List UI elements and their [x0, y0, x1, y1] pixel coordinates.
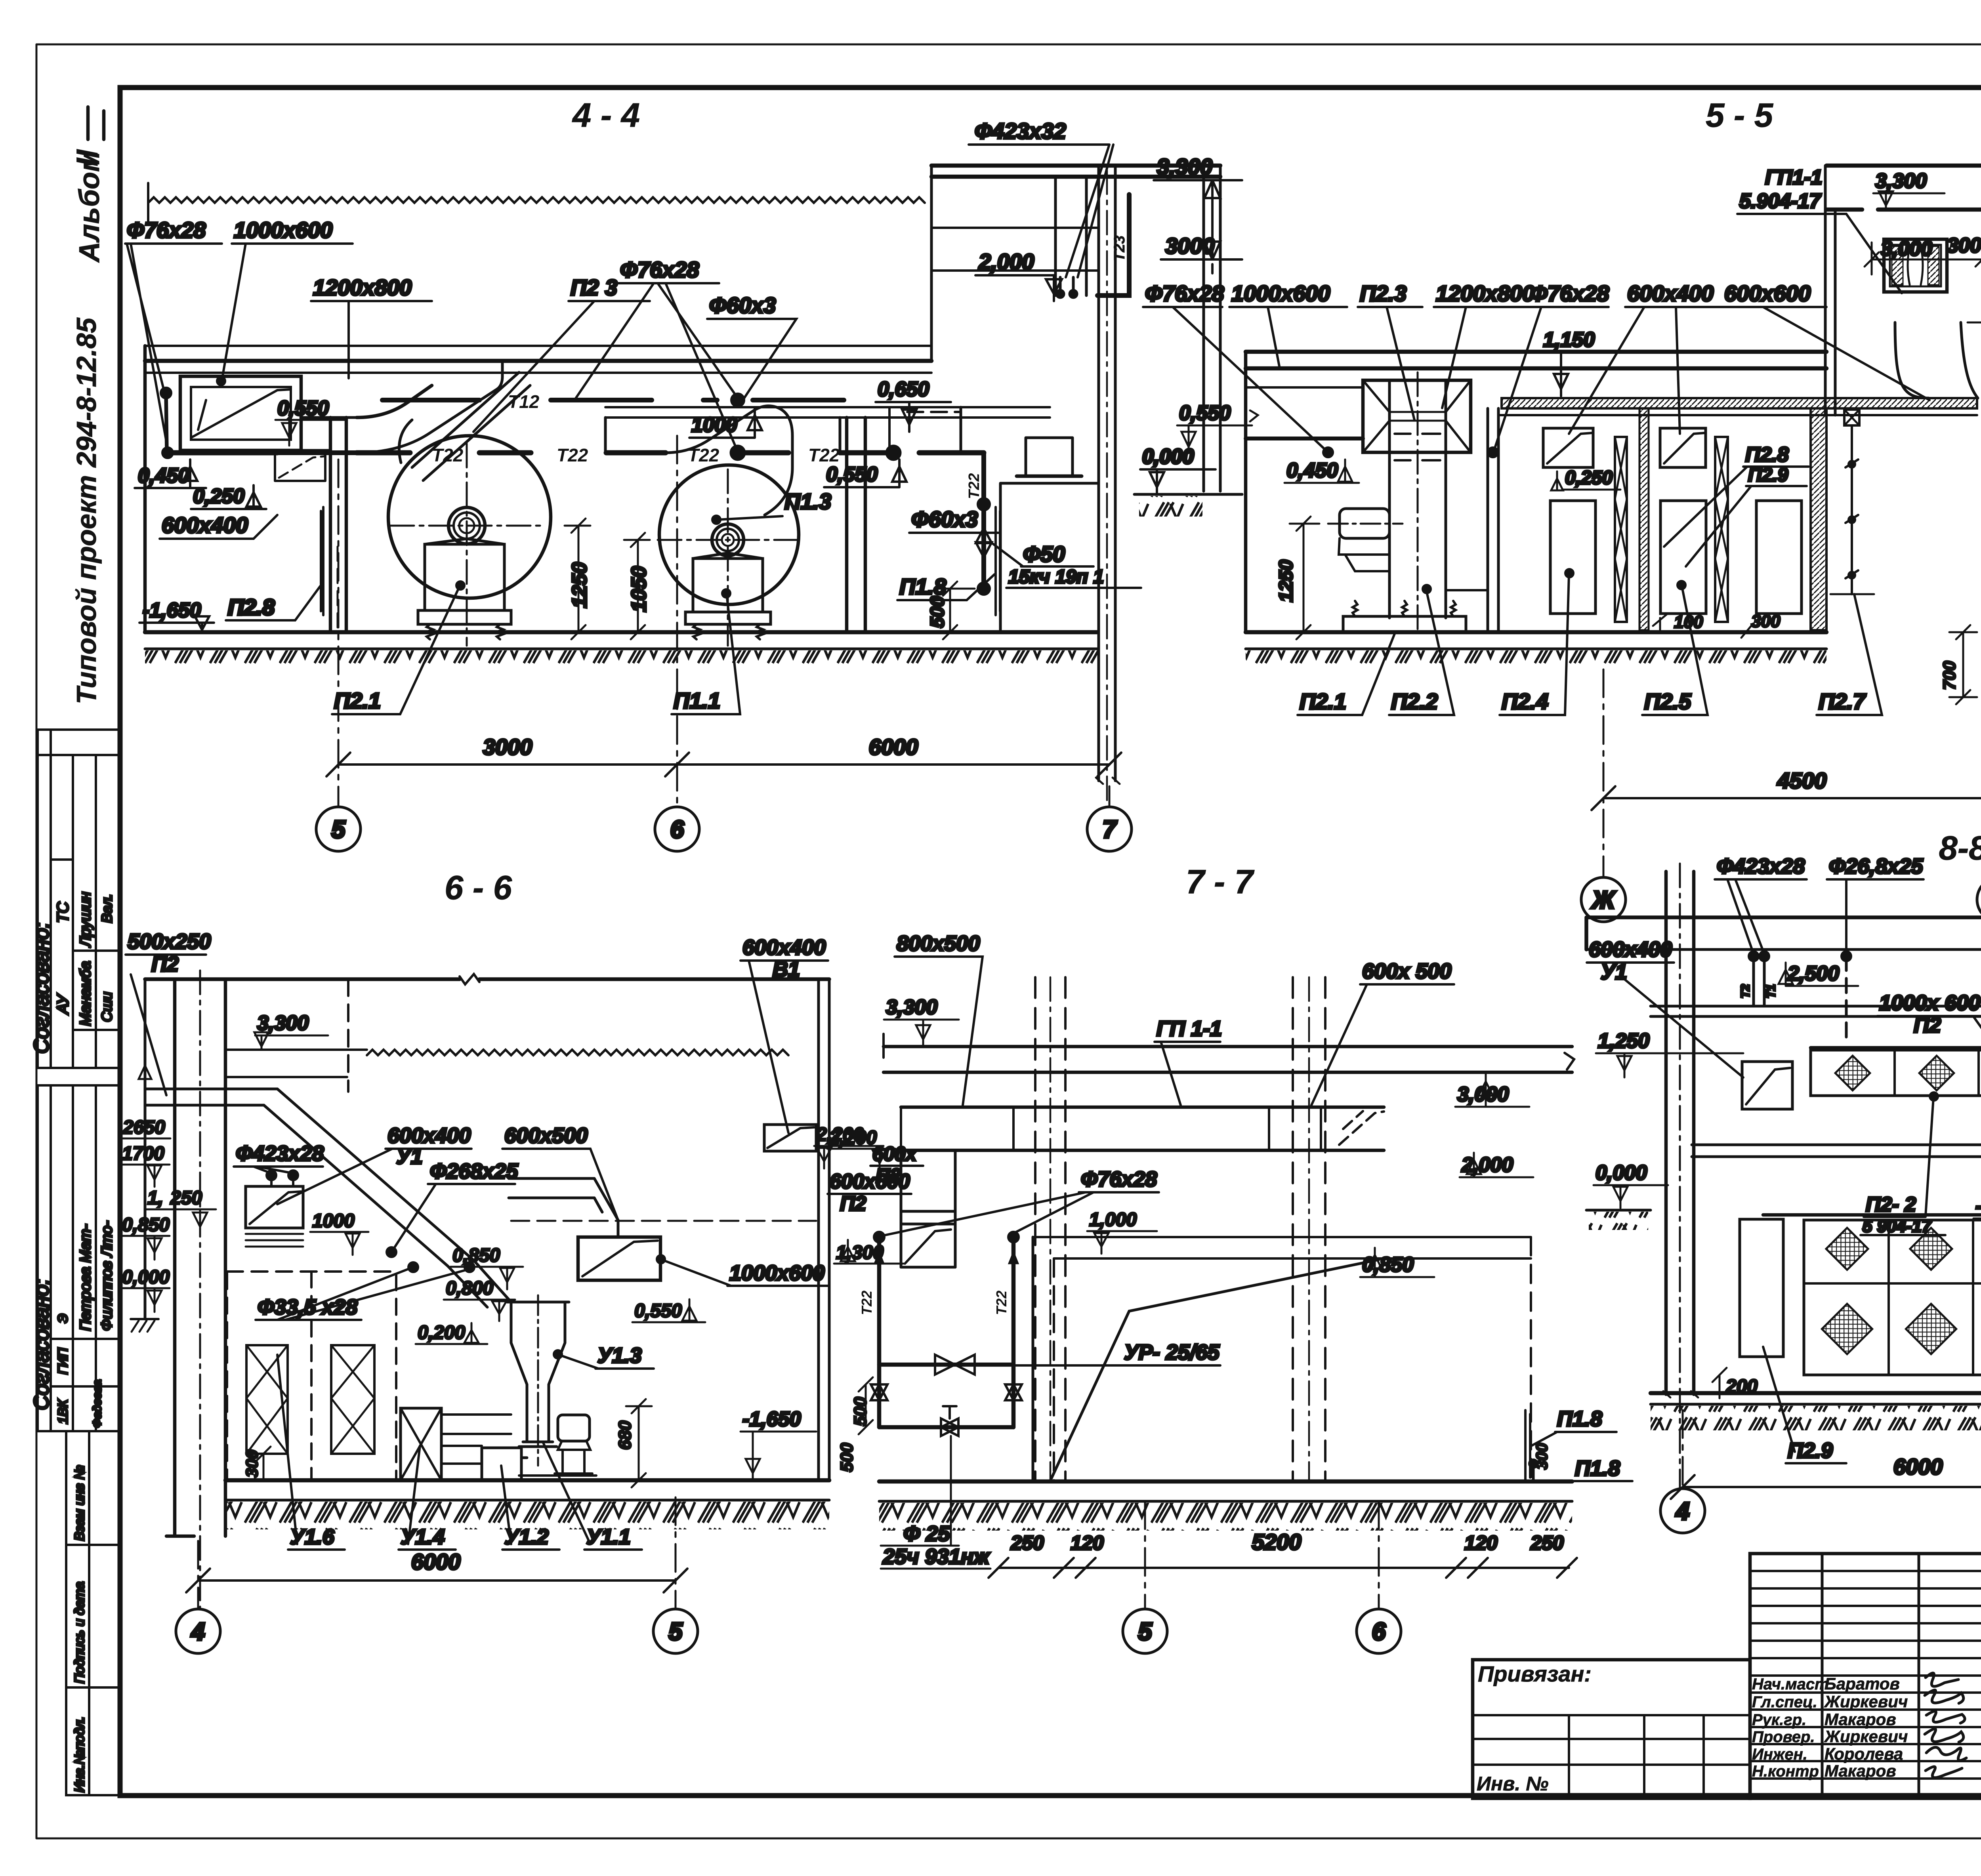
svg-text:500: 500: [927, 596, 948, 628]
6-6 label Ф33,5х28: [256, 1262, 474, 1320]
svg-text:Сши: Сши: [99, 992, 115, 1022]
svg-text:Жиркевич: Жиркевич: [1824, 1727, 1908, 1746]
svg-text:Т12: Т12: [508, 391, 540, 412]
4-4 wall 3 double: [847, 418, 865, 632]
8-8 ceiling of room: [1651, 1006, 1981, 1016]
svg-text:1000х600: 1000х600: [1231, 281, 1330, 306]
svg-text:Ф76х28: Ф76х28: [1145, 281, 1224, 306]
6-6 dim 2200: [827, 1127, 895, 1171]
svg-text:0,650: 0,650: [878, 378, 929, 401]
4-4 label П2.1: [332, 581, 464, 714]
4-4 dim 0550 louvre: [275, 397, 347, 446]
svg-text:П2- 2: П2- 2: [1866, 1193, 1916, 1216]
6-6 levels at left: [120, 1066, 216, 1312]
svg-text:Ф268х25: Ф268х25: [430, 1159, 518, 1183]
svg-text:П2.2: П2.2: [1391, 689, 1438, 714]
svg-text:2,000: 2,000: [978, 249, 1034, 274]
svg-text:Ф60х3: Ф60х3: [709, 293, 776, 318]
4-4 dim 0550 mid: [824, 459, 907, 487]
5-5 chamber walls: [1488, 408, 1498, 632]
5-5 П2.8 П2.9 labels mid: [1664, 443, 1809, 566]
svg-text:600х400: 600х400: [162, 513, 248, 538]
svg-text:7: 7: [1103, 816, 1117, 843]
7-7 top slab: [884, 1034, 1574, 1072]
5-5 dim 1250 vertical: [1276, 517, 1319, 639]
svg-text:120: 120: [1071, 1532, 1104, 1554]
svg-text:500: 500: [837, 1443, 857, 1472]
svg-text:600х600: 600х600: [830, 1170, 910, 1193]
dimension row 5-5: 4500 / 1500: [1592, 768, 1981, 810]
left margin vertical caption: Альбом II: [71, 107, 105, 263]
axis bubbles row 8-8: [1660, 1489, 1705, 1533]
svg-text:0,000: 0,000: [1595, 1161, 1647, 1184]
axis bubbles row 7-7: [1123, 1609, 1167, 1653]
svg-text:Нач.маст: Нач.маст: [1752, 1676, 1829, 1693]
svg-text:Ф76х28: Ф76х28: [620, 257, 699, 282]
svg-text:6: 6: [670, 816, 684, 843]
4-4 Т12 pipe dashes: [382, 391, 844, 412]
5-5 right hatched wall: [1639, 408, 1649, 630]
svg-text:0,250: 0,250: [1565, 467, 1613, 488]
svg-text:0,550: 0,550: [1179, 402, 1231, 425]
4-4 dim 2000: [975, 249, 1062, 301]
svg-text:Вал.: Вал.: [99, 894, 115, 923]
8-8 labels bottom: [1763, 1346, 1981, 1463]
svg-text:4500: 4500: [1777, 768, 1827, 793]
4-4 label П1.1: [672, 589, 740, 714]
4-4 dim 1000: [689, 408, 762, 438]
svg-text:250: 250: [1530, 1532, 1564, 1554]
svg-text:1250: 1250: [568, 562, 591, 608]
6-6 label 500x250 П2: [126, 930, 211, 1095]
4-4 label Ф50 15кч19п1: [992, 541, 1141, 588]
5-5 louvre box 2: [1660, 428, 1706, 467]
svg-text:1,250: 1,250: [1598, 1030, 1649, 1052]
svg-text:П2 3: П2 3: [571, 275, 617, 300]
svg-text:II: II: [71, 149, 104, 166]
7-7 label 600x600 П2: [828, 1170, 911, 1215]
6-6 label 600x400 У1: [277, 1124, 471, 1204]
5-5 dims 3000 300: [1865, 234, 1981, 275]
5-5 floor slab and hatch: [1246, 632, 1826, 668]
8-8 dim 200: [1712, 1368, 1758, 1398]
5-5 dim 3300: [1873, 170, 1945, 210]
svg-text:ТС: ТС: [54, 902, 72, 923]
4-4 dim -1650: [139, 599, 214, 632]
4-4 equipment right room: [961, 407, 1097, 632]
svg-text:0,450: 0,450: [138, 464, 189, 487]
svg-text:600х400: 600х400: [387, 1124, 471, 1148]
8-8 label 1000x600 П2: [1877, 991, 1981, 1161]
7-7 label Ф76x28: [874, 1167, 1159, 1242]
6-6 labels bottom row: [277, 1355, 642, 1550]
7-7 label УР-25/65: [1015, 1340, 1220, 1365]
6-6 dim -1650: [740, 1408, 816, 1480]
svg-text:2650: 2650: [122, 1117, 165, 1138]
6-6 left wall: [144, 979, 147, 1319]
6-6 dim 300 panels: [242, 1447, 271, 1480]
svg-text:У1.4: У1.4: [401, 1525, 445, 1549]
4-4 dim 0450: [135, 459, 206, 488]
4-4 fan П1.1 scroll: [658, 465, 799, 646]
6-6 fan У1.1 motor У1.2: [482, 1415, 599, 1480]
5-5 dim 2000: [1968, 322, 1981, 354]
svg-text:3,300: 3,300: [257, 1012, 309, 1035]
svg-text:680: 680: [615, 1420, 635, 1450]
svg-text:1200х800: 1200х800: [313, 275, 412, 300]
8-8 П2.9 boxes: [1740, 1219, 1981, 1357]
7-7 label Ф25 25ч931нж: [881, 1436, 990, 1569]
5-5 duct elbow right: [1895, 322, 1978, 398]
svg-text:Типовой проект 294-8-12.85: Типовой проект 294-8-12.85: [71, 317, 102, 704]
svg-text:ГИП: ГИП: [55, 1348, 71, 1375]
6-6 outlet box 1000x600: [578, 1237, 660, 1280]
4-4 dim 0650: [876, 378, 951, 432]
title block left small grid: [1750, 1571, 1981, 1779]
svg-text:Э: Э: [55, 1314, 71, 1323]
svg-text:4: 4: [1675, 1498, 1689, 1525]
5-5 ceiling slab: [1246, 352, 1826, 438]
svg-text:Лрушин: Лрушин: [77, 892, 94, 948]
7-7 floor and hatch: [879, 1481, 1572, 1531]
svg-text:4 - 4: 4 - 4: [572, 97, 640, 134]
axis dash-dot lines to bubbles: [198, 436, 1981, 1609]
svg-text:5: 5: [332, 816, 346, 843]
6-6 floor and hatch: [225, 1480, 829, 1529]
svg-text:Филиппов Лто-: Филиппов Лто-: [99, 1221, 115, 1331]
4-4 Т22 riser right: [966, 453, 992, 593]
dimension row 7-7: 250/120/5200/120/250: [989, 1529, 1577, 1578]
svg-text:П2.7: П2.7: [1819, 689, 1866, 714]
4-4 intake louvre box 1000x600: [180, 376, 301, 450]
svg-text:П1.8: П1.8: [1575, 1457, 1620, 1480]
4-4 dim 3000 right: [1161, 233, 1242, 259]
svg-text:5.904-17: 5.904-17: [1739, 190, 1821, 213]
4-4 label 1000x600 with leader: [217, 217, 353, 385]
8-8 У1 flag box left: [1742, 1062, 1792, 1109]
svg-text:7 - 7: 7 - 7: [1186, 863, 1255, 901]
4-4 fan П1.1 elbow: [605, 406, 792, 515]
6-6 label 600x500: [502, 1124, 618, 1220]
6-6 dim 1300: [834, 1240, 903, 1264]
5-5 label row: [1143, 281, 1929, 457]
svg-text:Макаров: Макаров: [1825, 1762, 1896, 1780]
left stamp box 3 (Взам.инв / Подпись и дата / Инв №подл): [66, 1431, 119, 1795]
5-5 dims 100 300 700: [1653, 612, 1977, 704]
4-4 dim 1050: [624, 533, 651, 639]
svg-text:Ф76х28: Ф76х28: [1081, 1167, 1157, 1191]
svg-text:Т2: Т2: [1739, 984, 1752, 998]
6-6 label 1000x600: [657, 1255, 828, 1286]
svg-text:1000х600: 1000х600: [729, 1261, 824, 1285]
6-6 dim 680: [615, 1399, 652, 1487]
svg-text:0,850: 0,850: [122, 1214, 170, 1235]
svg-text:Ж: Ж: [1591, 887, 1616, 914]
6-6 dashed chamber enclosure: [227, 1272, 396, 1479]
6-6 dims 1000 0850 0800 0200: [310, 1211, 523, 1344]
7-7 П1.8 grille: [1525, 1407, 1616, 1481]
4-4 label Ф423x32 with leader: [969, 118, 1113, 277]
8-8 shelf 2: [1692, 1145, 1981, 1157]
svg-text:ГП1-1: ГП1-1: [1765, 166, 1822, 189]
4-4 upper-right wing roof: [931, 166, 1220, 491]
svg-text:Ф50: Ф50: [1023, 541, 1065, 566]
svg-text:Согласовано:: Согласовано:: [30, 922, 53, 1054]
svg-text:500х250: 500х250: [128, 930, 211, 953]
7-7 label 600x500: [1311, 959, 1454, 1105]
4-4 П2.8 wall grille: [226, 507, 323, 620]
6-6 dim 500 right: [837, 1443, 857, 1472]
4-4 column axis 7: [1096, 166, 1120, 804]
6-6 left wall ground hatch: [131, 1319, 158, 1332]
8-8 floor and hatch: [1651, 1393, 1981, 1430]
svg-text:П1.3: П1.3: [784, 489, 831, 514]
5-5 ГП1-1 heater: [1884, 239, 1947, 292]
4-4 ceiling slab: [145, 346, 931, 373]
4-4 wall 2 double: [330, 418, 346, 632]
6-6 У1 inlet flag box: [246, 1186, 303, 1247]
7-7 dim 0850 room: [1360, 1248, 1434, 1277]
8-8 lower unit bank: [1763, 1215, 1981, 1375]
7-7 left drop duct: [901, 1150, 955, 1267]
svg-text:Манамба: Манамба: [77, 961, 94, 1026]
svg-text:Инв. №: Инв. №: [1477, 1773, 1548, 1795]
6-6 ceiling line: [145, 974, 829, 984]
4-4 dim 500: [927, 581, 975, 639]
svg-text:Ф423х28: Ф423х28: [236, 1142, 324, 1165]
7-7 duct 800x500: [901, 1107, 1384, 1150]
svg-text:П2: П2: [840, 1192, 866, 1215]
5-5 dim 0250: [1551, 467, 1620, 490]
svg-text:Макаров: Макаров: [1825, 1710, 1896, 1729]
svg-text:П1.1: П1.1: [674, 688, 720, 713]
svg-text:6000: 6000: [411, 1549, 461, 1574]
4-4 second duct span: [605, 407, 931, 453]
svg-text:П2.1: П2.1: [334, 688, 381, 713]
svg-text:Т22: Т22: [432, 445, 464, 465]
svg-text:3,300: 3,300: [1875, 170, 1927, 193]
svg-text:1200х800: 1200х800: [1436, 281, 1534, 306]
4-4 label Ф60x3 lower: [909, 507, 998, 533]
7-7 room outline: [1033, 1237, 1531, 1481]
4-4 duct from louvre: [164, 418, 357, 453]
8-8 dim -0050: [1973, 1195, 1981, 1236]
4-4 dim 1250: [565, 519, 591, 639]
4-4 dim 0250: [191, 485, 266, 509]
svg-text:25ч 931нж: 25ч 931нж: [882, 1545, 990, 1569]
dimension row 4-4: 3000 / 6000: [326, 734, 1121, 776]
7-7 dim 2000 right: [1460, 1153, 1533, 1177]
4-4 right ground level: [1134, 445, 1242, 517]
6-6 B1 outlet flag box: [764, 1125, 816, 1151]
dimension row 8-8: 6000 / 3000: [1671, 1454, 1981, 1499]
svg-text:Гл.спец.: Гл.спец.: [1752, 1693, 1817, 1711]
5-5 hatched ceiling band of chamber: [1498, 398, 1977, 415]
svg-text:Петрова Мат-: Петрова Мат-: [77, 1224, 94, 1331]
svg-text:П2.8: П2.8: [228, 595, 275, 620]
svg-text:1050: 1050: [628, 566, 651, 612]
svg-text:Т22: Т22: [808, 445, 840, 465]
6-6 label 600x П2 right: [870, 1143, 923, 1187]
5-5 left wall: [1244, 352, 1248, 632]
svg-text:Рук.гр.: Рук.гр.: [1752, 1711, 1806, 1729]
svg-text:Ф60х3: Ф60х3: [911, 507, 978, 532]
7-7 dim 2200 left: [814, 1124, 884, 1169]
svg-text:1,000: 1,000: [1089, 1209, 1137, 1230]
svg-text:600х400: 600х400: [1627, 281, 1714, 306]
8-8 label 600x400 У1: [1587, 938, 1743, 1077]
svg-text:3000: 3000: [483, 734, 532, 759]
svg-text:300: 300: [242, 1450, 261, 1478]
6-6 У1.4 stand: [401, 1408, 511, 1480]
svg-text:Фадеева: Фадеева: [91, 1380, 104, 1428]
7-7 Т22 riser loop: [859, 1237, 1022, 1436]
5-5 dim 0450: [1284, 459, 1359, 483]
8-8 label П2-2 5.904-17: [1861, 1092, 1945, 1236]
4-4 label Ф60x3 upper: [707, 293, 796, 400]
svg-text:2,500: 2,500: [1787, 962, 1839, 985]
5-5 unit plinth and springs: [1343, 601, 1466, 632]
6-6 right wall: [819, 979, 829, 1480]
svg-text:6 - 6: 6 - 6: [445, 869, 512, 907]
svg-text:5: 5: [669, 1618, 683, 1645]
6-6 duct 600x500 right: [509, 1178, 816, 1237]
8-8 upper unit bank: [1811, 1048, 1981, 1096]
svg-text:600х600: 600х600: [1724, 281, 1811, 306]
4-4 label 600x400: [160, 513, 277, 539]
7-7 label ГП1-1: [1155, 1017, 1222, 1105]
4-4 Т23 riser pipe: [1055, 194, 1129, 299]
5-5 labels bottom: [1298, 569, 1882, 715]
4-4 fan П2.1 scroll: [388, 420, 551, 646]
svg-text:Баратов: Баратов: [1825, 1674, 1900, 1693]
svg-text:Ф423х32: Ф423х32: [975, 118, 1066, 143]
svg-text:600х400: 600х400: [742, 936, 826, 959]
6-6 label Ф423x28: [234, 1142, 324, 1186]
4-4 dim 3300 right: [1154, 154, 1242, 273]
4-4 floor slab and hatch: [145, 632, 1097, 668]
svg-text:Королева: Королева: [1825, 1744, 1903, 1763]
svg-text:П2.3: П2.3: [1360, 281, 1407, 306]
svg-text:-1,650: -1,650: [143, 599, 201, 622]
svg-text:6000: 6000: [1893, 1454, 1943, 1479]
5-5 П2.2 heater column flanges: [1446, 589, 1488, 591]
svg-text:2,000: 2,000: [1461, 1153, 1513, 1176]
7-7 dim 500: [851, 1377, 873, 1434]
svg-text:250: 250: [170, 1188, 202, 1209]
6-6 dashed wall line: [347, 979, 349, 1092]
4-4 fan П2.1 discharge elbow up: [357, 361, 530, 480]
svg-text:0,000: 0,000: [122, 1267, 170, 1288]
svg-text:Т1: Т1: [1765, 984, 1778, 998]
svg-text:Ф76х28: Ф76х28: [1530, 281, 1609, 306]
4-4 Т22 pipe thick with dashes: [164, 445, 984, 465]
svg-text:П1.8: П1.8: [899, 574, 947, 599]
6-6 dim 3300: [227, 1012, 367, 1077]
svg-text:Н.контр: Н.контр: [1752, 1763, 1819, 1780]
svg-text:6000: 6000: [869, 734, 918, 759]
svg-text:Жиркевич: Жиркевич: [1824, 1692, 1908, 1711]
signatures scribbles: [1925, 1673, 1966, 1778]
svg-text:1000х 600: 1000х 600: [1879, 991, 1980, 1015]
svg-text:5200: 5200: [1252, 1529, 1302, 1554]
svg-text:Подпись и дата: Подпись и дата: [72, 1582, 87, 1683]
5-5 dim 1150: [1541, 328, 1616, 396]
6-6 X filter panel 2: [331, 1345, 374, 1454]
svg-text:3,000: 3,000: [1881, 237, 1932, 260]
svg-text:Ф76х28: Ф76х28: [127, 217, 206, 242]
6-6 label У1.3: [554, 1344, 654, 1369]
svg-text:Провер.: Провер.: [1752, 1728, 1815, 1746]
left stamp box 1 (Согласовано ТС/АУ): [30, 730, 119, 1068]
svg-text:П1.8: П1.8: [1557, 1407, 1602, 1431]
svg-text:0,200: 0,200: [418, 1322, 465, 1343]
8-8 left slab edge levels: [1586, 1030, 1743, 1230]
5-5 motor: [1328, 509, 1403, 571]
title block texts: [1477, 1565, 1981, 1837]
4-4 label П2 3 leader: [473, 275, 650, 432]
svg-text:Альбом: Альбом: [74, 151, 105, 263]
svg-text:120: 120: [1464, 1532, 1498, 1554]
svg-text:П2.8: П2.8: [1745, 443, 1789, 466]
svg-text:У1.3: У1.3: [597, 1344, 642, 1367]
svg-text:500: 500: [851, 1397, 870, 1426]
4-4 label 1200x800 with leader: [311, 275, 432, 378]
4-4 left wall: [143, 346, 147, 632]
svg-text:Т22: Т22: [993, 1291, 1010, 1315]
5-5 dim 0550 left: [1177, 402, 1258, 453]
4-4 roof zigzag break line: [148, 183, 931, 222]
svg-text:Согласовано:: Согласовано:: [30, 1279, 53, 1410]
svg-text:1,150: 1,150: [1543, 328, 1595, 351]
left stamp box 2 (Согласовано ГИП/ВК/Э): [30, 1085, 119, 1431]
svg-text:4: 4: [191, 1618, 205, 1645]
svg-text:3,300: 3,300: [1157, 154, 1212, 179]
svg-text:-1,650: -1,650: [742, 1408, 801, 1431]
7-7 dim 3000 right: [1455, 1074, 1529, 1107]
8-8 label П1.8 far left: [1573, 1457, 1632, 1481]
svg-text:600х 500: 600х 500: [1362, 959, 1451, 983]
8-8 top slab: [1586, 917, 1981, 949]
svg-text:П2.1: П2.1: [1300, 689, 1346, 714]
svg-text:У1.1: У1.1: [586, 1525, 631, 1549]
4-4 label Ф76x28 mid leaders: [574, 257, 738, 452]
svg-text:250: 250: [1010, 1532, 1044, 1554]
svg-text:1250: 1250: [1276, 560, 1297, 602]
4-4 dashed duct right: [889, 407, 961, 453]
4-4 wall pier below duct left: [275, 454, 325, 481]
8-8 column axis 4: [1663, 864, 1698, 1489]
svg-text:1000х600: 1000х600: [234, 217, 332, 242]
6-6 X filter panel 1: [246, 1345, 288, 1454]
svg-text:Т22: Т22: [557, 445, 588, 465]
6-6 zigzag break line: [367, 1050, 788, 1055]
6-6 duct П2 500x250: [145, 1089, 474, 1266]
svg-text:0,550: 0,550: [826, 463, 878, 486]
5-5 label ГП1-1 5.904-17: [1737, 166, 1902, 293]
svg-text:800х500: 800х500: [897, 932, 980, 955]
6-6 dim 0550: [632, 1299, 705, 1322]
7-7 dim 3300: [884, 996, 959, 1047]
5-5 filter frames: [1615, 437, 1728, 622]
svg-text:300: 300: [1947, 234, 1981, 257]
svg-text:0,550: 0,550: [277, 397, 329, 420]
svg-text:0,000: 0,000: [1142, 445, 1194, 468]
8-8 dim 2500: [1779, 962, 1858, 986]
svg-text:6: 6: [1372, 1618, 1386, 1645]
5-5 louvre box 1: [1543, 428, 1593, 467]
svg-text:Инв.№подл.: Инв.№подл.: [72, 1716, 87, 1792]
